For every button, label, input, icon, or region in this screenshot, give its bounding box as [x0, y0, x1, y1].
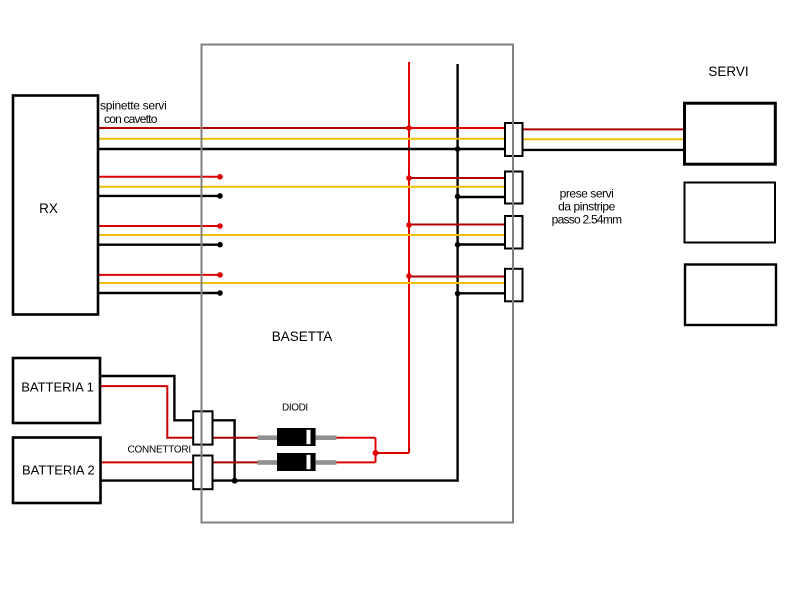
wire group2 yellow RX to connector2 — [97, 186, 506, 188]
diode D2 body — [277, 453, 316, 471]
diode D1 cathode band — [307, 430, 311, 444]
svg-text:BATTERIA 1: BATTERIA 1 — [21, 380, 94, 395]
connector C3 prese servi — [505, 216, 523, 249]
node group4 red stub end — [217, 272, 223, 278]
svg-text:CONNETTORI: CONNETTORI — [128, 445, 191, 456]
svg-text:da pinstripe: da pinstripe — [558, 200, 615, 214]
node group3 red stub end — [217, 223, 223, 229]
box battery 1 — [13, 358, 100, 423]
wire group3 black bus to connector3 — [458, 243, 506, 245]
svg-text:con cavetto: con cavetto — [104, 112, 158, 126]
wire group4 red bus to connector4 — [409, 276, 506, 278]
node junction group4 red on bus — [406, 273, 412, 279]
wire group2 red stub from RX — [97, 176, 220, 178]
box servo 2 — [685, 183, 776, 243]
box servo 3 — [685, 265, 776, 326]
wire red bus vertical (power) — [408, 62, 410, 453]
diode D1 cathode lead — [316, 435, 337, 440]
wire group1 black RX to connector1 — [97, 148, 510, 150]
diode D2 cathode lead — [316, 460, 337, 465]
wire group3 red stub from RX — [97, 225, 220, 227]
wire upper connector black to ground bus — [213, 420, 235, 481]
wire diode D2 output red — [336, 461, 375, 463]
node group2 black stub end — [217, 193, 223, 199]
wire group3 yellow RX to connector3 — [97, 234, 506, 236]
node junction group3 black on bus — [455, 242, 461, 248]
diode D1 anode lead — [258, 435, 277, 440]
wire group2 red bus to connector2 — [409, 177, 506, 179]
node diode output junction — [373, 450, 379, 456]
node junction group1 black on bus — [455, 146, 461, 152]
wire group3 red bus to connector3 — [409, 224, 506, 226]
diode D2 cathode band — [307, 455, 311, 469]
wire group4 black bus to connector4 — [458, 292, 506, 294]
svg-text:DIODI: DIODI — [282, 402, 308, 413]
wire group1 yellow connector1 to servo1 — [510, 138, 684, 140]
node junction group2 red on bus — [406, 175, 412, 181]
wire lower connector red to diode D2 — [213, 461, 259, 463]
wire diode outputs join vertical — [375, 438, 377, 463]
connector C2 prese servi — [505, 172, 523, 204]
box servo 1 — [685, 103, 776, 164]
connector upper battery — [193, 411, 212, 444]
wire group2 black bus to connector2 — [458, 196, 506, 198]
wire group1 yellow RX to connector1 — [97, 138, 510, 140]
wire group4 yellow RX to connector4 — [97, 282, 506, 284]
node group3 black stub end — [217, 242, 223, 248]
wire battery1 red to upper connector — [99, 386, 193, 438]
wire group4 black stub from RX — [97, 292, 220, 294]
wire battery1 black to upper connector — [99, 376, 193, 420]
svg-text:passo 2.54mm: passo 2.54mm — [552, 213, 622, 227]
diode D2 anode lead — [258, 460, 277, 465]
node junction group3 red on bus — [406, 222, 412, 228]
basetta board outline — [202, 45, 514, 523]
svg-text:BASETTA: BASETTA — [272, 329, 333, 344]
wire black bus vertical + ground run to battery 2 — [100, 64, 458, 481]
wire group1 red RX to red bus — [97, 127, 409, 129]
diode D1 body — [277, 428, 316, 446]
wire group2 black stub from RX — [97, 195, 220, 197]
wire group4 red stub from RX — [97, 274, 220, 276]
wire battery2 red to lower connector — [100, 461, 194, 463]
wire junction to red bus — [376, 452, 410, 454]
svg-text:RX: RX — [39, 201, 58, 216]
wire upper connector red to diode D1 — [213, 437, 259, 439]
box battery 2 — [13, 438, 101, 504]
box RX receiver — [13, 96, 98, 315]
wire group1 red bus to connector1 — [409, 127, 510, 129]
node junction group2 black on bus — [455, 194, 461, 200]
connector C1 prese servi — [505, 123, 523, 156]
node group2 red stub end — [217, 174, 223, 180]
node group4 black stub end — [217, 290, 223, 296]
wire group1 black connector1 to servo1 — [510, 149, 684, 151]
node junction group4 black on bus — [455, 291, 461, 297]
node junction battery grounds — [232, 478, 238, 484]
connector C4 prese servi — [505, 269, 523, 302]
svg-text:spinette servi: spinette servi — [100, 98, 167, 112]
svg-text:BATTERIA 2: BATTERIA 2 — [22, 462, 95, 477]
connector lower battery — [193, 456, 212, 490]
wire diode D1 output red — [336, 437, 375, 439]
wire group3 black stub from RX — [97, 243, 220, 245]
wire group1 red connector1 to servo1 — [510, 128, 684, 130]
svg-text:SERVI: SERVI — [708, 64, 748, 79]
node junction group1 red on bus — [406, 125, 412, 131]
svg-text:prese servi: prese servi — [560, 186, 614, 200]
